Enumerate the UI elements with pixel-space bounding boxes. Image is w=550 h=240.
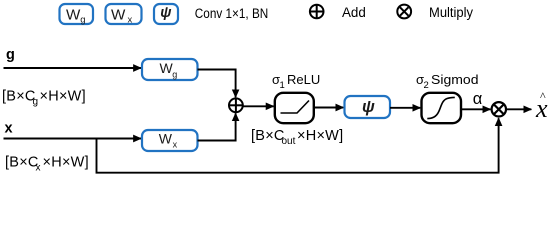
svg-text:Conv 1×1, BN: Conv 1×1, BN <box>195 6 268 21</box>
wire psi to sigmoid <box>390 107 420 109</box>
svg-text:x: x <box>36 163 41 174</box>
legend box W_x <box>106 4 142 26</box>
svg-text:ψ: ψ <box>160 5 171 21</box>
legend box psi <box>154 4 178 24</box>
conv block W_x <box>142 130 198 151</box>
label [BxCxxHxW] <box>5 155 89 174</box>
wire W_x to add <box>198 113 236 140</box>
svg-text:W: W <box>111 6 126 23</box>
wire g input <box>4 67 142 69</box>
svg-text:α: α <box>473 90 483 108</box>
sigmoid block <box>422 93 462 123</box>
svg-text:[B×C: [B×C <box>2 89 36 105</box>
svg-text:x: x <box>5 121 13 137</box>
wire add to relu <box>243 105 274 107</box>
svg-text:out: out <box>282 136 296 147</box>
label [BxCoutxHxW] <box>251 128 343 147</box>
svg-text:x: x <box>173 140 178 150</box>
svg-text:g: g <box>80 15 85 26</box>
svg-text:1: 1 <box>280 80 285 91</box>
legend box W_g <box>60 4 94 26</box>
wire x branch down <box>97 118 499 173</box>
svg-text:Multiply: Multiply <box>429 5 473 20</box>
conv block psi <box>345 96 391 118</box>
svg-text:Sigmod: Sigmod <box>431 72 479 87</box>
label sigma2 Sigmod <box>416 72 479 91</box>
wire sigmoid to multiply <box>461 108 490 110</box>
legend add symbol <box>310 5 324 19</box>
label [BxCgxHxW] <box>2 89 86 108</box>
wire W_g to add <box>198 70 236 98</box>
svg-text:W: W <box>66 6 81 23</box>
wire x input <box>4 138 142 140</box>
svg-text:ReLU: ReLU <box>287 72 320 87</box>
svg-text:×H×W]: ×H×W] <box>297 128 343 144</box>
multiplier node <box>492 102 506 116</box>
conv block W_g <box>142 59 198 80</box>
wire relu to psi <box>314 107 344 109</box>
svg-text:W: W <box>159 131 173 147</box>
adder node <box>229 98 243 112</box>
node x-hat output <box>535 89 548 123</box>
svg-text:^: ^ <box>540 89 546 103</box>
svg-text:2: 2 <box>424 80 429 91</box>
svg-text:[B×C: [B×C <box>5 155 39 171</box>
svg-text:x: x <box>128 15 133 26</box>
svg-text:Add: Add <box>342 5 366 20</box>
wire multiply to output <box>506 108 531 110</box>
svg-text:g: g <box>172 69 177 79</box>
svg-text:ψ: ψ <box>362 98 375 116</box>
svg-text:g: g <box>33 97 39 108</box>
svg-text:[B×C: [B×C <box>251 128 285 144</box>
relu block <box>275 93 314 123</box>
label sigma1 ReLU <box>272 72 320 91</box>
svg-text:×H×W]: ×H×W] <box>43 155 89 171</box>
svg-text:g: g <box>6 47 15 63</box>
svg-text:×H×W]: ×H×W] <box>40 89 86 105</box>
legend multiply symbol <box>397 5 411 19</box>
